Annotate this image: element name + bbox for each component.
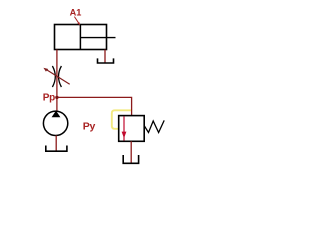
svg-text:A1: A1	[70, 8, 82, 18]
svg-text:Py: Py	[83, 121, 96, 133]
svg-text:Pp: Pp	[43, 92, 55, 103]
